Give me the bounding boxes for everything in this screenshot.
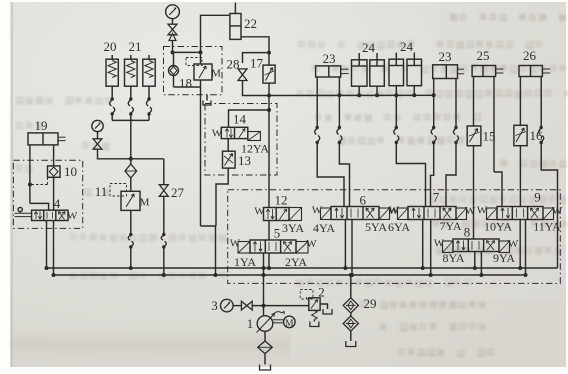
svg-text:4YA: 4YA	[313, 221, 335, 235]
wires 24 pair one to bus	[358, 86, 360, 95]
wires valve 4 to rails	[46, 221, 48, 269]
wires valve 8 to rails	[474, 252, 476, 269]
wire 19 left port down	[29, 145, 31, 204]
wire gauge to shutoff	[172, 19, 174, 25]
svg-text:23: 23	[439, 49, 452, 64]
svg-text:11: 11	[95, 184, 108, 199]
check valve inside 18 (circle+diamond)	[169, 66, 179, 76]
wire diamond to valve 11	[130, 178, 132, 191]
svg-text:21: 21	[129, 39, 142, 54]
svg-text:19: 19	[35, 118, 48, 133]
svg-text:9: 9	[534, 190, 541, 205]
wire gauge 3	[233, 305, 242, 307]
svg-text:W: W	[434, 238, 445, 250]
pilot dashed box of valve 18	[186, 58, 202, 66]
unit 18 enclosure (dash-dot)	[164, 47, 223, 95]
wire 22 rod port to valve 17	[241, 37, 269, 53]
wire 26-R to pressure rail end	[541, 143, 557, 269]
coupling 23b-R	[454, 126, 457, 129]
quick coupling a	[111, 97, 114, 100]
wire 28 down to node	[243, 81, 270, 96]
cylinder 22 (vertical)	[230, 14, 241, 40]
solenoid valve 8 (double)	[443, 241, 454, 253]
node: clamp feed junction	[267, 94, 271, 98]
spring of valve 2	[312, 310, 318, 319]
svg-text:20: 20	[104, 39, 117, 54]
wire 25 right port	[493, 77, 495, 173]
wires valve 5 to rails	[263, 253, 265, 268]
check valve (diamond) above valve 11	[130, 159, 132, 164]
clamp supply bus wire	[269, 94, 434, 96]
clamp cylinder 26	[519, 66, 542, 77]
return line to filters 29	[350, 275, 352, 298]
wire gauge to shutoff	[97, 132, 99, 139]
svg-text:27: 27	[171, 185, 185, 200]
wire 23a left port	[316, 77, 318, 128]
accumulator element a (unit 20)	[106, 59, 118, 86]
svg-text:10: 10	[64, 164, 77, 179]
svg-text:5: 5	[274, 226, 281, 241]
flow valve 15	[467, 126, 481, 146]
wires 24 pair two to bus	[395, 86, 397, 96]
svg-text:W: W	[552, 205, 563, 217]
svg-text:14: 14	[233, 112, 247, 127]
node on pilot line	[28, 183, 32, 187]
svg-text:12: 12	[275, 193, 288, 208]
wire node to valve 27	[131, 158, 164, 160]
support cylinder 24d	[407, 59, 422, 85]
svg-text:13: 13	[238, 153, 251, 168]
coupling 23b-L	[432, 126, 435, 129]
svg-text:18: 18	[179, 76, 192, 91]
wire branch to check 28	[243, 53, 270, 63]
wire 16 down to valve 9	[519, 146, 521, 207]
shutoff/check 28 (bowtie)	[238, 69, 247, 81]
svg-text:8YA: 8YA	[442, 251, 464, 265]
wire riser to relief valve 2	[264, 305, 309, 307]
wire 24c line down to valve 7	[395, 95, 397, 127]
svg-text:6YA: 6YA	[388, 220, 410, 234]
support cylinder 24a	[352, 60, 368, 86]
drive shaft	[273, 319, 284, 321]
wire left gauge line to node	[98, 149, 131, 159]
wire 26 left port to valve 16	[519, 77, 521, 126]
wire between filters	[350, 313, 352, 316]
pressure gauge (left)	[92, 120, 103, 131]
main trunk wire from unit 18 down to tank rail	[200, 87, 202, 226]
svg-text:15: 15	[483, 129, 496, 144]
wires valve 6 to rails	[344, 220, 346, 269]
relief valve 2	[309, 298, 320, 311]
drain of unit 18 to tank	[206, 95, 208, 101]
svg-text:W: W	[508, 238, 519, 250]
quick coupling c	[147, 97, 150, 100]
svg-text:7YA: 7YA	[439, 219, 461, 233]
svg-text:M: M	[285, 319, 294, 329]
svg-text:5YA: 5YA	[365, 220, 387, 234]
wire 23a-R to valve 6	[339, 143, 349, 207]
wire 26 right port	[540, 77, 542, 128]
coupling 23a-L	[316, 126, 319, 129]
solenoid valve 5 (double)	[238, 242, 250, 254]
enclosure of valves 13/14 (dash-dot)	[205, 104, 277, 176]
svg-text:7: 7	[433, 190, 440, 205]
wire 12 to 5	[268, 221, 270, 241]
wire into unit 18 box	[172, 41, 174, 53]
svg-text:3YA: 3YA	[282, 221, 304, 235]
pressure rail wire	[47, 267, 558, 269]
svg-text:2YA: 2YA	[285, 255, 307, 269]
cylinder 19	[28, 133, 58, 145]
quick coupling under 27	[162, 233, 165, 236]
svg-text:9YA: 9YA	[493, 251, 515, 265]
svg-text:22: 22	[244, 16, 257, 31]
svg-text:W: W	[230, 238, 241, 250]
svg-text:29: 29	[364, 296, 377, 311]
return filter 29b	[343, 316, 358, 331]
tank under pump	[260, 365, 271, 371]
pilot operated valve 18 body	[194, 64, 212, 80]
svg-text:W: W	[67, 210, 78, 222]
wire 27 down to coupling	[163, 196, 165, 234]
node feed to 14	[267, 108, 271, 112]
dashed pilot line to check valve 10	[32, 184, 48, 186]
wire 10 down to valve 4	[53, 177, 55, 210]
wire 25-R to valve 9	[494, 172, 502, 207]
wire 23b left port	[433, 79, 435, 96]
throttle valve 13	[223, 151, 236, 168]
wires valve 7 to rails	[422, 220, 424, 269]
svg-text:4: 4	[54, 196, 61, 211]
svg-text:M: M	[211, 68, 221, 80]
wires valve 9 to rails	[519, 220, 521, 269]
node: inner top rail of unit 18	[171, 50, 175, 54]
svg-text:17: 17	[250, 56, 264, 71]
clamp cylinder 25	[472, 66, 496, 77]
flow valve 16	[514, 125, 527, 145]
wire valve 11 down to coupling	[130, 210, 132, 234]
wire manifold down to node	[130, 120, 132, 158]
accumulator element c (unit 21)	[143, 59, 155, 86]
quick coupling b	[129, 97, 132, 100]
wire 27 to tank rail	[163, 247, 165, 275]
shutoff valve at gauge 3	[241, 301, 252, 310]
coupling 23a-R	[338, 126, 341, 129]
wire 11 to pressure rail	[130, 247, 132, 268]
svg-text:25: 25	[477, 48, 490, 63]
tank under filters 29	[346, 341, 356, 347]
svg-text:24: 24	[400, 39, 414, 54]
pressure gauge 3	[221, 299, 234, 312]
lever of valve 4	[18, 207, 22, 211]
pump riser wire	[263, 268, 265, 316]
wire 19 left line to valve 4	[30, 203, 49, 210]
svg-text:26: 26	[523, 48, 537, 63]
wire 23b-R to valve 7	[446, 143, 456, 207]
suction line	[264, 331, 266, 341]
wire filter to tank	[264, 354, 266, 365]
return filter 29a	[343, 298, 358, 313]
manifold wire joining accumulators	[111, 114, 113, 120]
directional valve 4 (lever operated)	[32, 210, 68, 220]
drain of valve 2 to tank	[320, 304, 327, 309]
svg-text:W: W	[477, 205, 488, 217]
svg-text:M: M	[140, 197, 150, 209]
throttle valve 17	[268, 53, 270, 66]
inner bottom rail of unit 18	[174, 86, 201, 88]
quick coupling under 11	[129, 233, 132, 236]
wire down to reducing valve 14	[268, 96, 270, 208]
relief valve 11 body	[121, 191, 140, 210]
wire 23b right port	[455, 79, 457, 128]
svg-text:W: W	[389, 205, 400, 217]
wire 15 down to valve 8	[473, 146, 475, 239]
wire shutoff to riser	[252, 305, 263, 307]
coupling 26-R	[540, 126, 543, 129]
support cylinder 24c	[389, 59, 404, 85]
svg-text:W: W	[465, 205, 476, 217]
svg-text:1YA: 1YA	[234, 255, 256, 269]
pilot dashed box of valve 11	[110, 184, 127, 197]
wire 23a right port	[338, 77, 340, 95]
air bleed triangle	[169, 34, 176, 41]
node above valve 17	[267, 51, 271, 55]
coupling 24c	[395, 126, 398, 129]
svg-text:10YA: 10YA	[484, 220, 512, 234]
pump 1 (variable)	[257, 316, 273, 332]
accumulator element b (unit 21)	[125, 59, 138, 86]
wire 17 to node	[268, 83, 270, 95]
node on manifold drop	[129, 157, 133, 161]
wire 23a-L to valve 6	[317, 143, 344, 207]
svg-text:24: 24	[362, 40, 376, 55]
solenoid valve 9 (double)	[487, 208, 498, 220]
node trunk to tank rail	[214, 273, 218, 277]
svg-text:3: 3	[211, 298, 218, 313]
pressure gauge (top, on accumulator line)	[166, 5, 180, 19]
shutoff valve 27	[159, 185, 168, 197]
svg-text:11YA: 11YA	[533, 220, 561, 234]
wire filters to tank	[350, 331, 352, 341]
wire 13 drain jog to tank rail	[216, 168, 228, 226]
wire 22 cap port	[201, 15, 230, 52]
clamp cylinder 23 (second)	[433, 65, 458, 79]
solenoid valve 7 (double)	[398, 208, 409, 220]
svg-text:6: 6	[360, 193, 367, 208]
clamp cylinder 23 (first)	[316, 66, 341, 77]
wire 14 to 13	[227, 139, 229, 152]
svg-text:1: 1	[247, 316, 254, 331]
solenoid valve 6 (double)	[321, 208, 332, 220]
pilot check valve 10	[48, 166, 61, 177]
manifold enclosure (dash-dot)	[228, 190, 561, 284]
wire 19 right port to check valve 10	[53, 145, 55, 166]
svg-text:8: 8	[464, 225, 471, 240]
pilot dashed of valve 2	[306, 298, 311, 299]
wire 25 left port to valve 15	[473, 77, 475, 127]
tank under spring 2	[310, 322, 319, 327]
solenoid of valve 14	[248, 132, 261, 141]
electric motor M	[284, 316, 296, 328]
svg-text:W: W	[306, 238, 317, 250]
shutoff valve under left gauge	[93, 139, 102, 149]
shutoff valve (gauge isolator)	[168, 24, 177, 35]
svg-text:W: W	[312, 205, 323, 217]
wire 23b-L to valve 7	[431, 143, 434, 207]
wires from accumulators to couplings	[111, 86, 113, 99]
svg-text:16: 16	[530, 128, 544, 143]
svg-text:23: 23	[323, 51, 336, 66]
tank rail wire	[54, 274, 526, 276]
suction filter	[258, 341, 273, 354]
support cylinder 24b	[370, 60, 385, 86]
enclosure of valve group 4 (dash-dot)	[13, 160, 82, 228]
